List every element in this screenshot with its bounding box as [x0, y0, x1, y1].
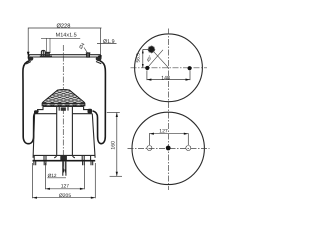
piston top — [35, 106, 93, 113]
air fitting (star) in top view — [148, 46, 156, 54]
dimension 148 — [147, 71, 190, 82]
svg-text:148: 148 — [161, 75, 170, 81]
centerline vertical shared — [167, 29, 169, 191]
bellows rolling lobe left (outer wall, U-turn, inner wall) — [23, 61, 39, 144]
svg-text:Ø205: Ø205 — [59, 193, 71, 199]
bolt left (filled) — [145, 66, 149, 70]
dimension 127 (front bottom) — [45, 163, 84, 190]
dimension Ø1.9 label with leader — [97, 39, 117, 60]
rubber roll bead left — [34, 110, 38, 114]
piston base — [33, 155, 96, 165]
svg-text:160: 160 — [110, 141, 116, 150]
leader star to center — [153, 51, 169, 68]
svg-text:M14x1.5: M14x1.5 — [56, 33, 77, 39]
dimension Ø12 label — [47, 173, 66, 178]
bottom view circle (base outline) — [132, 112, 204, 184]
top view circle (plate outline) — [135, 34, 203, 102]
bottom center stud — [63, 161, 66, 176]
svg-text:127: 127 — [159, 128, 168, 134]
centerline front view — [62, 45, 64, 172]
centerline horizontal bottom view — [128, 147, 210, 149]
dimension 56.5 — [136, 49, 150, 68]
bolt right (filled) — [188, 66, 192, 70]
svg-text:56.5: 56.5 — [136, 53, 142, 63]
arrow Ø228 left — [27, 52, 30, 57]
hole right — [186, 146, 191, 151]
rubber roll bead right — [88, 109, 93, 114]
dimension 160 (right side) — [107, 113, 122, 177]
center stud (filled) — [166, 146, 171, 151]
bumper mount / pedestal — [59, 106, 68, 111]
hole left — [147, 146, 152, 151]
vent stud (right) — [86, 53, 91, 57]
dimension 127 (bottom view) — [149, 128, 188, 145]
label 45° — [145, 54, 153, 62]
top plate — [26, 55, 101, 64]
dimension M14x1.5 label — [41, 33, 80, 53]
bellows rolling lobe right — [93, 61, 106, 144]
air fitting M14x1.5 (left stud) — [40, 50, 52, 56]
label Ø4 slanted with leader to vent stud — [78, 42, 88, 55]
45 deg line — [148, 50, 163, 68]
piston body — [33, 107, 95, 158]
svg-text:Ø1.9: Ø1.9 — [103, 39, 115, 45]
dimension Ø228 label — [28, 22, 101, 56]
rubber bumper (cross-hatched) on piston — [30, 70, 97, 123]
centerline horizontal top view — [131, 67, 208, 69]
dimension Ø205 (front bottom) — [33, 163, 96, 199]
svg-text:127: 127 — [61, 184, 70, 190]
